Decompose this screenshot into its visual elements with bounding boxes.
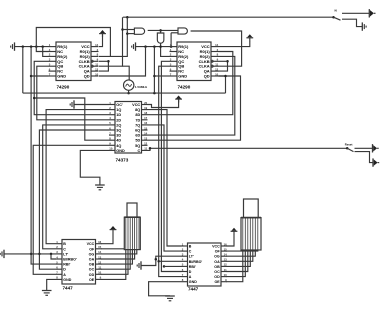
- svg-text:19: 19: [144, 106, 148, 110]
- svg-text:A: A: [189, 275, 192, 279]
- svg-text:LT': LT': [189, 255, 194, 259]
- svg-text:14: 14: [95, 43, 99, 47]
- svg-text:7Q: 7Q: [135, 123, 140, 127]
- svg-text:4D: 4D: [116, 139, 121, 143]
- svg-text:D: D: [63, 268, 66, 272]
- svg-text:6D: 6D: [135, 134, 140, 138]
- svg-text:C: C: [63, 247, 66, 251]
- svg-text:OC': OC': [116, 103, 123, 107]
- svg-text:4Q: 4Q: [116, 144, 121, 148]
- svg-text:GND: GND: [63, 278, 71, 282]
- svg-text:12: 12: [224, 263, 228, 267]
- svg-text:16: 16: [224, 242, 228, 246]
- svg-text:13: 13: [144, 137, 148, 141]
- svg-text:RBI': RBI': [189, 265, 196, 269]
- svg-text:11: 11: [144, 147, 147, 151]
- svg-text:OD: OD: [89, 273, 95, 277]
- svg-text:RBI': RBI': [63, 263, 70, 267]
- svg-text:GND: GND: [189, 280, 197, 284]
- svg-text:VCC: VCC: [87, 242, 95, 246]
- svg-text:15: 15: [144, 126, 148, 130]
- svg-text:BI/RBO': BI/RBO': [189, 260, 203, 264]
- svg-text:OF: OF: [215, 250, 221, 254]
- svg-text:16: 16: [144, 121, 148, 125]
- svg-text:5D: 5D: [135, 139, 140, 143]
- svg-text:OE: OE: [89, 278, 95, 282]
- svg-text:14: 14: [215, 43, 219, 47]
- svg-text:QD: QD: [84, 73, 90, 78]
- svg-text:2Q: 2Q: [116, 123, 121, 127]
- svg-text:OB: OB: [214, 265, 220, 269]
- svg-text:10: 10: [215, 72, 219, 76]
- svg-text:3Q: 3Q: [116, 128, 121, 132]
- svg-text:QD: QD: [204, 73, 210, 78]
- svg-text:LT': LT': [63, 252, 68, 256]
- svg-text:74290: 74290: [178, 85, 191, 90]
- svg-text:OB: OB: [89, 263, 95, 267]
- svg-text:GND: GND: [178, 73, 187, 78]
- svg-text:OD: OD: [214, 275, 220, 279]
- svg-text:C: C: [137, 149, 140, 153]
- svg-text:12: 12: [98, 260, 102, 264]
- svg-text:VCC: VCC: [132, 103, 140, 107]
- svg-text:13: 13: [224, 258, 228, 262]
- svg-text:12: 12: [144, 142, 148, 146]
- svg-text:14: 14: [144, 131, 148, 135]
- svg-text:1Q: 1Q: [116, 108, 121, 112]
- svg-text:OF: OF: [89, 247, 95, 251]
- svg-text:12: 12: [95, 67, 99, 71]
- svg-text:GND: GND: [57, 73, 66, 78]
- svg-text:B: B: [63, 242, 66, 246]
- svg-text:A: A: [63, 273, 66, 277]
- svg-text:13: 13: [98, 255, 102, 259]
- svg-text:8Q: 8Q: [135, 108, 140, 112]
- svg-text:10: 10: [98, 271, 102, 275]
- svg-text:OG: OG: [89, 252, 95, 256]
- svg-text:8D: 8D: [135, 113, 140, 117]
- svg-text:B: B: [189, 244, 192, 248]
- svg-text:11: 11: [98, 266, 101, 270]
- svg-text:N: N: [335, 9, 337, 13]
- svg-text:15: 15: [224, 247, 228, 251]
- svg-text:OA: OA: [214, 260, 220, 264]
- svg-text:17: 17: [144, 116, 148, 120]
- svg-text:10: 10: [224, 273, 228, 277]
- svg-text:VCC: VCC: [212, 244, 220, 248]
- svg-text:3D: 3D: [116, 134, 121, 138]
- svg-text:5Q: 5Q: [135, 144, 140, 148]
- svg-text:1D: 1D: [116, 113, 121, 117]
- svg-text:1.59MHz: 1.59MHz: [135, 85, 148, 89]
- svg-text:D: D: [189, 270, 192, 274]
- svg-text:OG: OG: [214, 255, 220, 259]
- svg-text:GND: GND: [116, 149, 125, 153]
- svg-text:11: 11: [224, 268, 227, 272]
- svg-text:BI/RBO': BI/RBO': [63, 257, 77, 261]
- svg-text:OA: OA: [89, 257, 95, 261]
- svg-text:2D: 2D: [116, 118, 121, 122]
- svg-text:16: 16: [98, 240, 102, 244]
- svg-text:C: C: [189, 250, 192, 254]
- svg-text:11: 11: [95, 63, 98, 67]
- svg-text:15: 15: [98, 245, 102, 249]
- svg-text:OE: OE: [214, 280, 220, 284]
- svg-text:18: 18: [144, 111, 148, 115]
- svg-text:14: 14: [224, 253, 228, 257]
- svg-text:6Q: 6Q: [135, 128, 140, 132]
- svg-text:7447: 7447: [188, 287, 199, 292]
- svg-text:11: 11: [215, 63, 218, 67]
- svg-text:14: 14: [98, 250, 102, 254]
- svg-text:20: 20: [144, 101, 148, 105]
- svg-text:7D: 7D: [135, 118, 140, 122]
- svg-text:10: 10: [95, 72, 99, 76]
- svg-text:74290: 74290: [57, 85, 70, 90]
- svg-text:Reset: Reset: [345, 142, 353, 146]
- svg-text:7447: 7447: [63, 286, 74, 291]
- svg-text:OC: OC: [214, 270, 220, 274]
- svg-text:74373: 74373: [116, 158, 129, 163]
- svg-text:10: 10: [109, 147, 113, 151]
- svg-text:OC: OC: [89, 268, 95, 272]
- svg-text:12: 12: [215, 67, 219, 71]
